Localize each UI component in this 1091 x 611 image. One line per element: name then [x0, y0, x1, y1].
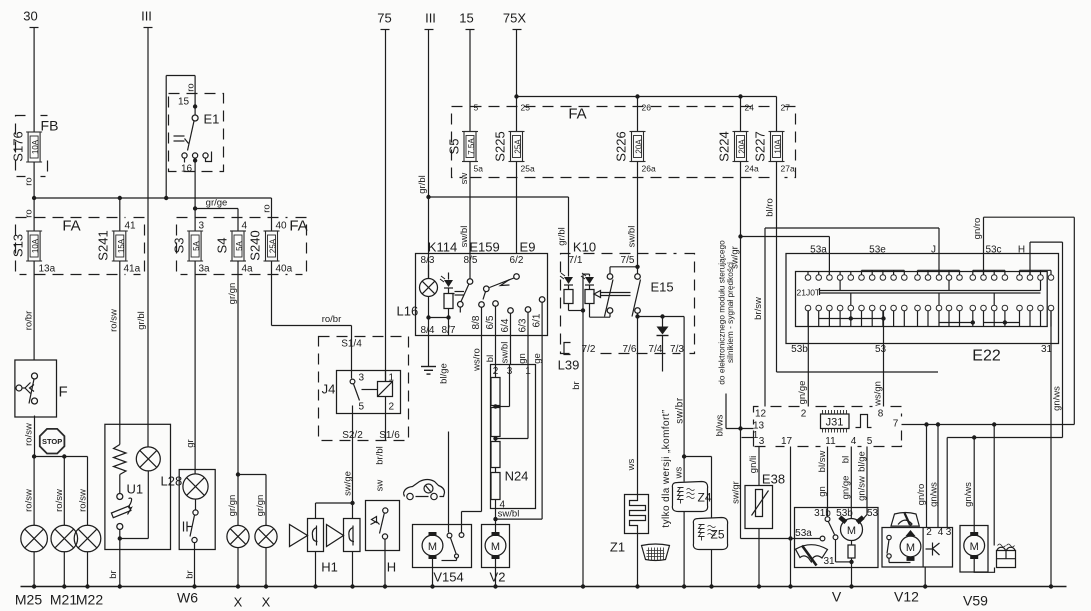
svg-text:3: 3 [199, 221, 205, 232]
svg-text:27a: 27a [781, 164, 795, 174]
svg-text:gn/ge: gn/ge [797, 381, 808, 405]
svg-text:FB: FB [41, 118, 59, 134]
svg-text:27: 27 [781, 103, 791, 113]
svg-text:5A: 5A [192, 240, 201, 250]
svg-text:24a: 24a [745, 164, 759, 174]
svg-text:W6: W6 [177, 590, 198, 606]
diode 7/4 komfort [657, 317, 669, 372]
svg-text:8/5: 8/5 [464, 255, 478, 266]
svg-text:53: 53 [867, 508, 879, 519]
svg-text:gn: gn [517, 353, 528, 364]
svg-text:53a: 53a [810, 245, 827, 256]
wire sw/gr S224 down [730, 162, 830, 539]
svg-text:20A: 20A [635, 139, 644, 154]
wire gn/li J31 3 to E38 [748, 447, 759, 486]
car icon [404, 480, 445, 500]
label do elektronicznego modulu [717, 240, 736, 385]
svg-text:3: 3 [759, 436, 765, 447]
wire ro/br S13 to F [24, 261, 35, 361]
svg-text:3a: 3a [199, 264, 211, 275]
washer pump V59 [960, 526, 995, 609]
svg-text:H: H [387, 560, 396, 575]
svg-text:sw/ge: sw/ge [343, 471, 354, 496]
relay J31 box [753, 407, 902, 448]
svg-text:2: 2 [926, 527, 932, 538]
wire bl/ws speed signal to J31 13 [715, 394, 754, 437]
svg-text:bl: bl [841, 456, 852, 463]
STOP symbol [40, 429, 65, 454]
svg-text:7/4: 7/4 [649, 344, 663, 355]
horn H1 left [290, 519, 324, 587]
lamp L28 [120, 445, 182, 539]
svg-text:40: 40 [276, 221, 288, 232]
svg-text:E159: E159 [469, 240, 499, 255]
wire 53a to wiper V [741, 538, 821, 540]
wire ro/br S240 to J4 [272, 261, 352, 337]
washer nozzle heater Z4 [672, 482, 711, 587]
svg-text:N24: N24 [505, 469, 529, 484]
svg-text:ge: ge [532, 353, 543, 364]
wire gn/ws E22 31 to ground [1051, 311, 1063, 587]
svg-text:sw: sw [459, 173, 470, 185]
line B washer [947, 425, 1062, 528]
temperature sensor E38 [745, 472, 785, 587]
svg-text:25A: 25A [269, 238, 278, 253]
svg-text:S241: S241 [96, 230, 111, 260]
svg-text:L39: L39 [558, 358, 580, 373]
wire sw/bl S226 to E15 7/5 [627, 162, 638, 267]
svg-text:10A: 10A [31, 139, 40, 154]
svg-text:gr: gr [185, 439, 196, 447]
wire ws 7/6 to Z1 [626, 354, 638, 495]
wire gr S3 to W6 [185, 261, 196, 474]
terminal 6/5 [485, 301, 498, 336]
E22 rail 21J0T [797, 288, 1041, 298]
rail 75 [377, 11, 391, 382]
fuse S224 [717, 97, 759, 174]
svg-text:FA: FA [289, 218, 307, 235]
svg-text:S226: S226 [614, 131, 629, 161]
svg-text:12: 12 [755, 409, 767, 420]
svg-text:sw: sw [375, 480, 386, 492]
svg-text:ro: ro [262, 204, 273, 212]
fuse S227 [753, 103, 795, 174]
svg-text:ro: ro [186, 83, 197, 91]
node 7/2 wire [582, 274, 584, 353]
svg-text:FA: FA [62, 218, 80, 235]
svg-text:13a: 13a [39, 264, 56, 275]
wire br 7/2 to ground [582, 354, 584, 587]
fuse S226 [614, 97, 656, 174]
terminals 7/2 7/6 7/4 7/3 [582, 344, 685, 355]
svg-text:J: J [931, 245, 936, 256]
svg-text:17: 17 [781, 436, 793, 447]
connector E22 outer [786, 245, 1059, 365]
svg-text:sw/bl: sw/bl [500, 342, 511, 364]
svg-text:K10: K10 [573, 240, 596, 255]
fuse S3 [172, 221, 211, 275]
wire bl/ge gn/sw J31 5 to V 53 [857, 447, 868, 525]
svg-text:ro/sw: ro/sw [109, 309, 120, 332]
svg-text:gr/ge: gr/ge [206, 198, 228, 209]
wire S225 to E9 [516, 162, 518, 254]
svg-text:gn/ro: gn/ro [972, 218, 983, 240]
svg-text:gr/gn: gr/gn [227, 283, 238, 305]
E22 bottom bridges [819, 316, 1020, 324]
svg-text:2: 2 [389, 402, 395, 413]
svg-text:4: 4 [851, 436, 857, 447]
svg-text:ws: ws [626, 458, 637, 471]
svg-text:sw/gr: sw/gr [731, 481, 742, 504]
svg-text:2: 2 [801, 409, 807, 420]
svg-text:S4: S4 [215, 238, 230, 254]
wire gr/bl branch III rail [417, 175, 569, 199]
svg-text:5a: 5a [474, 164, 484, 174]
wire br/bl sw J4 to H [375, 446, 386, 491]
svg-text:53: 53 [875, 344, 887, 355]
washer pump V2 [482, 519, 510, 586]
washer jet symbol [994, 438, 1015, 568]
svg-text:4: 4 [242, 221, 248, 232]
svg-text:gn/ws: gn/ws [963, 482, 974, 507]
rear wiper motor V12 [882, 527, 953, 605]
relay J4 [319, 337, 409, 442]
wire ro bus to S240 [262, 198, 273, 231]
svg-text:sw/br: sw/br [675, 397, 686, 424]
wire gn/ge J31 2 to E22 53b [797, 311, 808, 407]
node E15 output [635, 314, 684, 353]
svg-text:15A: 15A [117, 238, 126, 253]
svg-text:21J0T: 21J0T [797, 288, 821, 298]
rear window symbol [642, 544, 670, 561]
wiper arm symbol V12 [891, 513, 919, 527]
svg-text:7/3: 7/3 [670, 344, 684, 355]
wire gn/ws to V59 [963, 438, 974, 535]
switch E9 [483, 274, 519, 300]
svg-text:gn/ws: gn/ws [1052, 386, 1063, 411]
svg-text:40a: 40a [276, 264, 293, 275]
LED1 K10 [560, 273, 585, 313]
svg-text:M: M [906, 542, 915, 554]
fuse S241 [96, 198, 141, 275]
svg-text:E22: E22 [972, 348, 1001, 365]
svg-text:br: br [108, 570, 119, 578]
svg-text:S2/2: S2/2 [342, 430, 363, 441]
switch unit box K114 E159 E9 [416, 240, 548, 336]
svg-text:6/3: 6/3 [518, 318, 529, 332]
bottom terminal labels [15, 590, 271, 610]
lamp X left [227, 525, 249, 586]
wire ro/sw S241 to U1 [109, 261, 120, 445]
box K10 with E15 [561, 240, 695, 354]
wire bl/sw gn J31 11 to V 31b [817, 447, 828, 517]
svg-text:III: III [141, 9, 152, 24]
svg-text:gr/gn: gr/gn [227, 495, 238, 517]
svg-text:S176: S176 [11, 131, 26, 161]
svg-text:Z4: Z4 [698, 491, 712, 505]
wire ge 6/1 bypass [496, 336, 544, 520]
svg-text:S13: S13 [11, 234, 26, 257]
fuse S5 [447, 103, 484, 174]
FA fusebox right [177, 218, 308, 275]
svg-text:S5: S5 [447, 139, 462, 155]
svg-text:ro/sw: ro/sw [24, 489, 35, 512]
washer nozzle heater Z5 [693, 518, 727, 587]
svg-text:S225: S225 [493, 131, 508, 161]
terminal 6/3 [518, 307, 531, 336]
svg-text:5: 5 [867, 436, 873, 447]
svg-text:53b: 53b [791, 344, 808, 355]
svg-text:S240: S240 [248, 230, 263, 260]
svg-text:4: 4 [938, 527, 944, 538]
connector L39 [558, 343, 582, 390]
svg-text:V2: V2 [490, 570, 506, 585]
svg-text:ro/sw: ro/sw [24, 423, 35, 446]
junction brake lamps [32, 454, 88, 458]
svg-text:41a: 41a [124, 264, 141, 275]
lamp M25 [21, 457, 48, 587]
svg-text:ro/sw: ro/sw [54, 489, 65, 512]
svg-text:ws/gn: ws/gn [873, 381, 884, 407]
W6 glovebox lamp [179, 470, 215, 550]
svg-text:5A: 5A [235, 240, 244, 250]
terminal 6/1 [532, 297, 545, 336]
svg-text:30: 30 [23, 9, 37, 24]
lamp M21 [51, 457, 78, 587]
svg-text:gr/bl: gr/bl [557, 227, 568, 245]
fuse S176 FB box [11, 116, 59, 177]
svg-text:X: X [234, 595, 243, 610]
bus 75X horizontal [514, 94, 776, 131]
svg-text:2: 2 [493, 366, 499, 377]
wire ro bus to S13 [24, 198, 35, 232]
node gr/ge [193, 198, 238, 232]
svg-text:6/2: 6/2 [510, 255, 524, 266]
svg-text:3: 3 [359, 373, 365, 384]
wire sw/bl 6/4 to N24 [500, 336, 511, 365]
horn H1 right [321, 519, 360, 587]
wire gn 6/3 to N24 [517, 336, 528, 365]
svg-text:6/5: 6/5 [485, 315, 496, 329]
svg-text:7/2: 7/2 [582, 344, 596, 355]
svg-text:53b: 53b [836, 508, 853, 519]
svg-text:8: 8 [878, 409, 884, 420]
wire H bracket [1030, 242, 1063, 437]
LED2 K10 [581, 273, 610, 317]
svg-text:E38: E38 [762, 472, 785, 487]
svg-text:gn/ws: gn/ws [929, 482, 940, 507]
svg-text:7/6: 7/6 [623, 344, 637, 355]
bus 30/ro horizontal [32, 196, 272, 200]
svg-text:5: 5 [359, 402, 365, 413]
svg-text:M: M [491, 541, 500, 553]
svg-text:53c: 53c [985, 245, 1001, 256]
svg-text:bl/sw: bl/sw [817, 451, 828, 473]
svg-text:bl/ro: bl/ro [765, 198, 776, 216]
svg-text:8/3: 8/3 [421, 255, 435, 266]
svg-text:br/bl: br/bl [375, 446, 386, 464]
svg-text:ws/ro: ws/ro [472, 348, 483, 372]
E1 ignition switch [166, 76, 223, 209]
svg-text:15: 15 [459, 11, 473, 26]
lamp M22 [74, 457, 101, 587]
wiper motor V154 [413, 363, 472, 586]
svg-text:U1: U1 [127, 482, 144, 497]
svg-text:L16: L16 [397, 304, 419, 319]
svg-text:br/sw: br/sw [753, 297, 764, 320]
svg-text:26a: 26a [642, 164, 656, 174]
horn switch H [366, 501, 400, 587]
svg-text:75X: 75X [503, 11, 526, 26]
wire sw/br 7/3 to Z4 Z5 [674, 354, 712, 519]
svg-text:V: V [832, 589, 842, 605]
svg-text:gr/bl: gr/bl [417, 175, 428, 193]
svg-text:6/4: 6/4 [500, 318, 511, 332]
svg-text:sw/bl: sw/bl [498, 509, 520, 520]
terminals 8/4 8/7 [421, 325, 456, 336]
switch E15 [594, 265, 674, 354]
svg-text:24: 24 [745, 103, 755, 113]
svg-text:4a: 4a [242, 264, 254, 275]
svg-text:7/1: 7/1 [569, 255, 583, 266]
svg-text:S3: S3 [172, 238, 187, 254]
svg-text:E15: E15 [651, 280, 674, 295]
svg-text:15: 15 [178, 97, 190, 108]
svg-text:M: M [970, 541, 979, 553]
wire ro S176 to bus [24, 162, 35, 198]
svg-text:STOP: STOP [42, 437, 62, 446]
fuse S240 [248, 221, 293, 275]
E22 internal stubs [840, 280, 1040, 305]
J31 chip symbol [821, 410, 850, 433]
E22 top pins [805, 270, 1054, 280]
svg-text:sw/bl: sw/bl [627, 226, 638, 248]
svg-text:75: 75 [377, 11, 391, 26]
wire gr/gn S4 to lamps X [227, 261, 266, 525]
svg-text:26: 26 [642, 103, 652, 113]
wire sw/bl S5 to E159 [459, 162, 470, 254]
svg-text:53a: 53a [795, 528, 812, 539]
wire gr/bl to K10 7/1 [557, 197, 569, 273]
wire gr/bl III rail to L28 [136, 311, 147, 329]
svg-text:E1: E1 [204, 112, 220, 127]
rail III (left) [141, 9, 152, 445]
square wave symbol [856, 415, 872, 428]
rail 15 [459, 11, 474, 132]
svg-text:3: 3 [946, 527, 952, 538]
svg-text:7: 7 [893, 419, 899, 430]
svg-text:S1/6: S1/6 [379, 430, 400, 441]
wire br W6 to ground [185, 550, 196, 587]
heated rear window Z1 [610, 495, 649, 587]
svg-text:gr/gn: gr/gn [255, 495, 266, 517]
lamp L16 inside K114 [397, 265, 451, 336]
svg-text:H: H [1018, 245, 1025, 256]
terminal 8/8 [471, 302, 484, 330]
svg-text:ws: ws [674, 466, 685, 479]
svg-text:bl/ge: bl/ge [439, 363, 450, 384]
switch E159 [452, 254, 473, 313]
svg-text:ro: ro [24, 177, 35, 185]
svg-text:J4: J4 [322, 382, 336, 397]
svg-text:7/5: 7/5 [621, 255, 635, 266]
svg-text:bl/ws: bl/ws [715, 414, 726, 436]
LED and resistor E159 indicator [440, 273, 453, 336]
svg-text:Z1: Z1 [610, 540, 625, 555]
svg-text:10A: 10A [774, 139, 783, 154]
svg-text:M22: M22 [76, 592, 103, 608]
fuse S4 [215, 221, 254, 275]
E22 bottom pins [805, 305, 1054, 326]
svg-text:M: M [428, 541, 437, 553]
svg-text:ro/br: ro/br [322, 314, 342, 325]
svg-text:M: M [847, 525, 856, 537]
wire bl gn/ge J31 4 to V 53b [841, 447, 852, 519]
svg-text:ro: ro [24, 209, 35, 217]
svg-text:25A: 25A [514, 139, 523, 154]
wire sw/ge J4 to horns [316, 441, 355, 519]
rail 30 [23, 9, 38, 133]
svg-text:X: X [262, 595, 271, 610]
ground L16 [421, 336, 436, 375]
svg-text:20A: 20A [738, 139, 747, 154]
svg-text:V12: V12 [894, 589, 919, 605]
wire ws/ro loop to V154 [462, 308, 483, 533]
svg-text:11: 11 [825, 436, 836, 447]
svg-text:5: 5 [474, 103, 479, 113]
svg-text:53e: 53e [869, 245, 886, 256]
svg-text:F: F [59, 384, 68, 401]
svg-text:tylko dla wersji „komfort”: tylko dla wersji „komfort” [661, 409, 672, 527]
svg-text:7.5A: 7.5A [467, 138, 476, 155]
svg-text:8/8: 8/8 [471, 315, 482, 329]
svg-text:Z5: Z5 [711, 528, 725, 542]
svg-text:silnikiem - sygnał prędkości: silnikiem - sygnał prędkości [725, 262, 735, 363]
fuse S225 [493, 103, 535, 174]
wire br U1 to ground [108, 539, 120, 587]
wire gn/ro to V12 2 [916, 425, 927, 528]
svg-text:6/1: 6/1 [532, 313, 543, 327]
svg-text:S227: S227 [753, 131, 768, 161]
stub J31 1 [742, 437, 754, 439]
svg-text:gn: gn [817, 486, 828, 497]
wire br/sw J31 12 to E22 J [753, 228, 939, 407]
svg-text:10A: 10A [31, 238, 40, 253]
svg-text:41: 41 [125, 221, 137, 232]
svg-text:ro/sw: ro/sw [78, 489, 89, 512]
svg-text:M25: M25 [15, 592, 42, 608]
lamp X right [255, 525, 277, 586]
svg-text:III: III [425, 11, 436, 26]
svg-text:8/7: 8/7 [442, 325, 456, 336]
svg-text:V154: V154 [433, 570, 463, 585]
svg-text:H1: H1 [321, 560, 338, 575]
wire ro/sw F to junction [24, 416, 35, 457]
svg-text:bl: bl [485, 355, 496, 362]
svg-text:gn/li: gn/li [748, 456, 759, 473]
svg-text:8/4: 8/4 [421, 325, 435, 336]
svg-text:gn/ge: gn/ge [841, 476, 852, 500]
FA fusebox top [452, 106, 796, 178]
svg-text:S224: S224 [717, 131, 732, 161]
svg-text:25: 25 [521, 103, 531, 113]
terminal 6/4 [500, 308, 513, 336]
svg-text:E9: E9 [520, 240, 536, 255]
rail 75X [503, 11, 526, 132]
wire bl/ro S227 down [765, 162, 939, 373]
svg-text:br: br [571, 381, 582, 389]
FA fusebox left [16, 218, 145, 275]
